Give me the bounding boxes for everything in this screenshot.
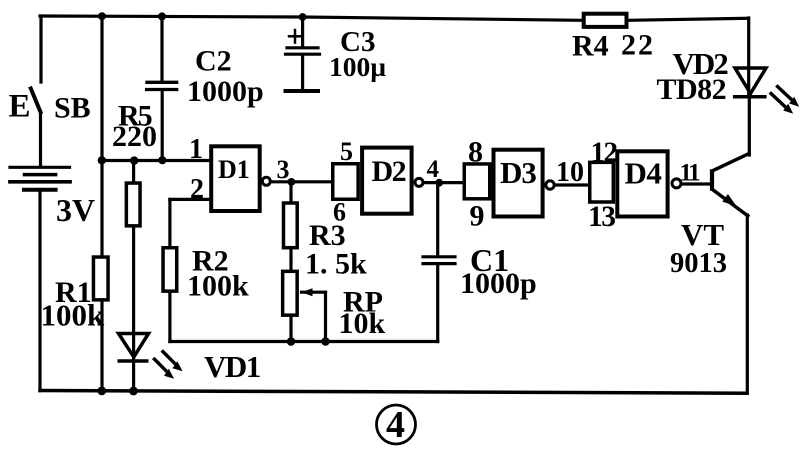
svg-text:D4: D4 <box>625 156 662 191</box>
svg-text:E: E <box>9 89 31 125</box>
svg-text:13: 13 <box>588 201 615 233</box>
svg-text:10: 10 <box>556 157 584 188</box>
svg-text:12: 12 <box>591 137 618 169</box>
svg-text:9013: 9013 <box>670 248 727 279</box>
svg-text:6: 6 <box>333 198 346 227</box>
svg-text:220: 220 <box>112 120 157 153</box>
svg-text:5: 5 <box>340 137 353 166</box>
svg-text:D1: D1 <box>218 155 250 184</box>
svg-text:VT: VT <box>681 217 724 252</box>
svg-text:D2: D2 <box>372 155 406 188</box>
svg-text:1: 1 <box>189 134 203 165</box>
svg-text:100k: 100k <box>41 298 106 333</box>
svg-text:1000p: 1000p <box>460 267 537 300</box>
svg-text:C2: C2 <box>195 45 232 78</box>
svg-text:3V: 3V <box>56 192 95 228</box>
svg-text:TD82: TD82 <box>657 73 727 106</box>
svg-text:8: 8 <box>468 136 483 169</box>
svg-text:11: 11 <box>680 160 701 187</box>
svg-text:2: 2 <box>190 174 204 205</box>
svg-text:D3: D3 <box>500 155 536 190</box>
svg-text:10k: 10k <box>339 307 386 340</box>
svg-text:9: 9 <box>470 200 485 233</box>
svg-text:100k: 100k <box>187 270 249 303</box>
svg-text:4: 4 <box>427 156 440 183</box>
svg-text:100µ: 100µ <box>329 51 386 82</box>
svg-text:22: 22 <box>621 29 655 62</box>
svg-text:VD1: VD1 <box>204 349 260 384</box>
svg-text:3: 3 <box>277 155 290 184</box>
svg-text:1. 5k: 1. 5k <box>305 248 367 281</box>
svg-text:1000p: 1000p <box>187 75 264 108</box>
svg-text:SB: SB <box>54 92 91 125</box>
svg-text:R4: R4 <box>572 30 609 63</box>
svg-text:4: 4 <box>386 404 405 446</box>
